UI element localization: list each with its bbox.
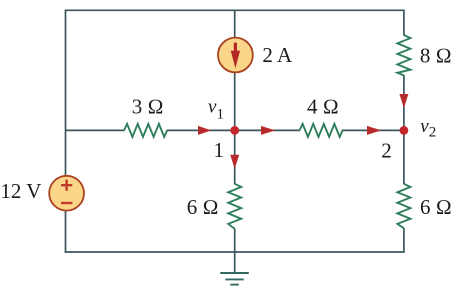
svg-text:8 Ω: 8 Ω [420,44,452,68]
wire ground stem [234,252,236,273]
wire middle horizontal center segment (3Ω to 4Ω through node 1) [167,129,300,131]
wire middle vertical lower (6Ω to bottom rail) [234,229,236,252]
svg-text:2 A: 2 A [262,43,293,67]
svg-text:3 Ω: 3 Ω [132,94,164,118]
svg-text:12 V: 12 V [0,179,41,203]
resistor 6Ω right [397,184,410,229]
node v2 dot [400,126,409,135]
current arrow into node 1 (right) [198,126,211,135]
current arrow out of node 1 (right) [261,126,275,135]
voltage source 12 V [49,176,84,211]
resistor 8Ω [397,35,410,76]
wire top rail [65,9,404,11]
wire right rail top segment [403,10,405,36]
wire middle horizontal right segment (4Ω to node v2) [342,129,404,131]
resistor 3Ω [124,124,167,137]
wire bottom rail [65,251,404,253]
svg-text:6 Ω: 6 Ω [187,195,219,219]
resistor 6Ω middle [228,184,241,229]
wire right rail middle segment (8Ω to node v2) [403,75,405,184]
wire middle vertical upper (top rail through 2A source to node 1) [234,10,236,184]
svg-text:2: 2 [381,139,392,163]
current arrow down right rail (8Ω to v2) [399,94,408,108]
current arrow into node v2 (right) [367,126,381,135]
current source 2 A [218,38,253,73]
current arrow down from node 1 [230,155,239,169]
wire left rail [65,10,67,253]
svg-text:6 Ω: 6 Ω [420,195,452,219]
node 1 dot [230,126,239,135]
wire middle horizontal left segment (left rail to 3Ω) [66,129,125,131]
wire right rail bottom segment [403,228,405,253]
ground [220,273,249,285]
svg-text:1: 1 [213,138,224,162]
svg-text:4 Ω: 4 Ω [307,95,339,119]
resistor 4Ω [300,124,343,137]
